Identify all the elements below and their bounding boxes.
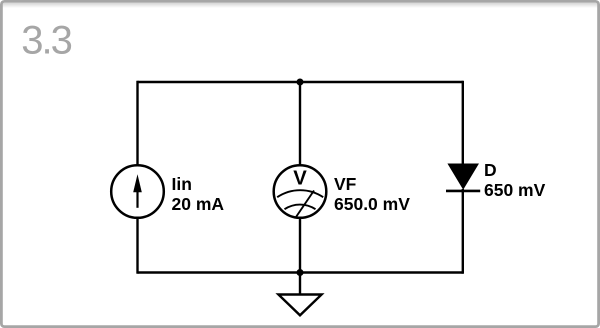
wire right lower: [462, 189, 464, 274]
value label D 650 mV: [484, 160, 546, 200]
svg-text:20 mA: 20 mA: [172, 194, 225, 214]
svg-text:VF: VF: [334, 174, 357, 194]
wire left lower: [136, 218, 138, 274]
svg-text:650 mV: 650 mV: [484, 180, 546, 200]
voltmeter VF: [274, 165, 327, 218]
value label Iin 20 mA: [172, 174, 225, 214]
wire bottom: [138, 271, 463, 273]
svg-text:Iin: Iin: [172, 174, 192, 194]
svg-text:V: V: [293, 168, 307, 190]
wire middle lower: [299, 218, 301, 273]
svg-text:650.0 mV: 650.0 mV: [334, 194, 410, 214]
junction node top: [297, 79, 304, 86]
label 3.3: [21, 19, 71, 63]
ground: [278, 273, 321, 316]
value label VF 650.0 mV: [334, 174, 410, 214]
diode D: [446, 164, 480, 191]
junction node bottom: [297, 269, 304, 276]
wire left upper: [136, 81, 138, 165]
wire middle upper: [299, 82, 301, 165]
wire right upper: [462, 81, 464, 165]
current source Iin: [111, 165, 164, 218]
svg-text:3.3: 3.3: [21, 19, 71, 63]
wire top: [138, 81, 463, 83]
svg-text:D: D: [484, 160, 497, 180]
